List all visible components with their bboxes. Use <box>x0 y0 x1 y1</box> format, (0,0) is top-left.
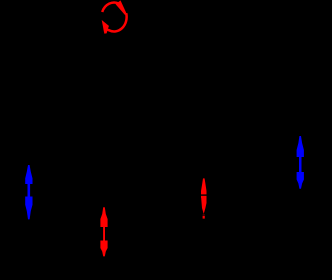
black bond line crossing middle arrow (lower) <box>197 214 211 215</box>
red double-headed arrow, middle (short, crossed by black bond lines) <box>201 178 207 218</box>
black bond line crossing middle arrow (upper) <box>197 194 211 195</box>
arrowhead bottom-left of circular arrow <box>102 20 109 34</box>
arc B: from right (15deg) through bottom to lower-left (245deg) <box>104 13 127 31</box>
blue double-headed arrow, left <box>25 165 32 219</box>
arrowhead top-right of circular arrow <box>116 0 127 15</box>
blue double-headed arrow, right <box>297 136 304 189</box>
circular rotation arrow (red), top center <box>102 3 126 32</box>
arc A: over the top, from left (160deg) to upper-right (65deg) <box>102 3 119 12</box>
red double-headed arrow, bottom center-left <box>100 207 107 256</box>
